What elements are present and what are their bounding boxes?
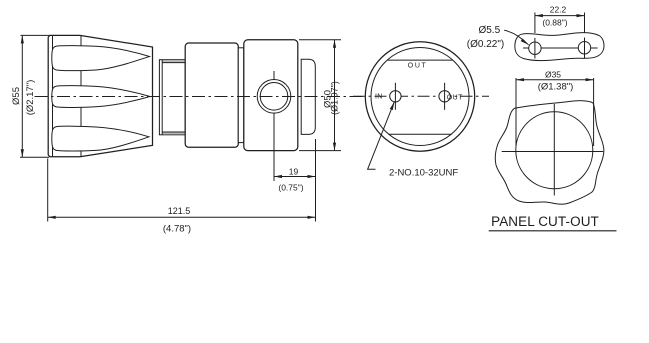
mounting detail outline [515,33,604,61]
front view bottom flat chord [389,133,451,135]
dimension D35 arrow left [516,78,524,81]
svg-text:22.2: 22.2 [550,5,567,15]
svg-text:(Ø2.17"): (Ø2.17") [25,80,36,116]
connector ring [238,48,244,143]
IN port circle [390,91,401,102]
dimension 19 ext line right [315,139,317,222]
dimension D55 line [21,35,23,157]
dimension 121.5 ext line left [47,159,49,222]
end cap [301,59,315,134]
svg-text:(0.88"): (0.88") [542,18,567,28]
OUT port circle [439,91,450,102]
dimension 121.5 line [48,216,316,218]
dimension D35 ext line right [593,78,595,146]
dimension D50 arrow up [333,40,336,48]
dimension D5.5 leader [504,30,528,45]
svg-text:Ø35: Ø35 [545,69,561,79]
IN port crosshair [394,83,396,110]
front view top flat chord [387,59,453,61]
svg-text:(4.78"): (4.78") [163,224,191,235]
detail hole right crosshair [584,38,586,59]
mounting detail centerline [523,47,598,49]
threaded neck [159,60,185,135]
dimension 121.5 arrow left [48,216,56,219]
dimension D50 line [334,40,336,151]
neck thread band bottom [162,132,185,134]
dimension 19 arrow left [274,175,282,178]
svg-text:Ø5.5: Ø5.5 [478,25,500,36]
detail hole left crosshair [534,38,536,59]
port circle outer [257,80,291,114]
dimension D35 arrow right [586,78,594,81]
svg-text:2-NO.10-32UNF: 2-NO.10-32UNF [389,168,458,179]
svg-text:121.5: 121.5 [168,206,191,216]
panel cutout vertical centerline [553,104,555,196]
neck inner vertical line [161,60,163,135]
panel cutout circle [516,112,593,189]
port circle inner [260,83,288,111]
thread callout leader arrow [390,101,396,110]
dimension D50 ext line top [299,39,341,41]
knob grip pod middle [52,86,150,108]
svg-text:(0.75"): (0.75") [278,183,303,193]
dimension D35 ext line left [515,78,517,146]
svg-text:OUT: OUT [447,94,463,101]
svg-text:IN: IN [375,94,383,101]
svg-text:(Ø1.38"): (Ø1.38") [538,82,574,93]
knob grip pod top [52,46,150,71]
dimension D55 ext line top [21,34,50,36]
body section 2 [244,40,298,151]
detail hole right [578,42,590,54]
dimension D55 arrow up [21,35,24,43]
front view centerline [353,95,489,97]
neck thread band top [162,60,185,62]
svg-text:(Ø0.22"): (Ø0.22") [467,39,504,50]
dimension 19 arrow right [308,175,316,178]
dimension D35 line [516,79,594,81]
panel cutout blob [495,101,604,205]
dimension D50 arrow down [333,143,336,151]
thread callout leader [368,102,395,170]
dimension 22.2 ext line left [534,13,536,34]
knob inner rim line [52,36,54,157]
side view centerline [35,96,368,98]
dimension D55 arrow down [21,149,24,157]
detail hole left [529,42,541,54]
front view inner circle [371,48,469,146]
dimension 22.2 ext line right [584,13,586,33]
body section 1 [185,43,238,147]
dimension 22.2 arrow left [535,14,543,17]
panel cutout title underline [489,230,617,232]
dimension D50 ext line bottom [299,150,341,152]
svg-text:Ø55: Ø55 [11,87,22,105]
dimension 19 line [274,176,316,178]
knob profile line segment [80,36,82,157]
knob side view outline [48,35,152,156]
svg-text:(Ø1.97"): (Ø1.97") [330,81,340,115]
dimension 22.2 line [535,15,585,17]
svg-text:OUT: OUT [408,62,428,69]
panel cutout horizontal centerline [502,151,604,153]
svg-text:PANEL CUT-OUT: PANEL CUT-OUT [491,214,599,229]
front view outer circle [365,42,474,151]
dimension 22.2 arrow right [577,14,585,17]
dimension D55 ext line bottom [20,156,49,158]
OUT port crosshair [444,83,446,110]
knob grip pod bottom [52,126,149,151]
port vertical centerline [273,71,275,181]
dimension D5.5 leader arrow [521,39,530,47]
dimension 121.5 arrow right [308,216,316,219]
dimension 19 ext line left [273,155,275,181]
svg-text:19: 19 [289,167,299,177]
